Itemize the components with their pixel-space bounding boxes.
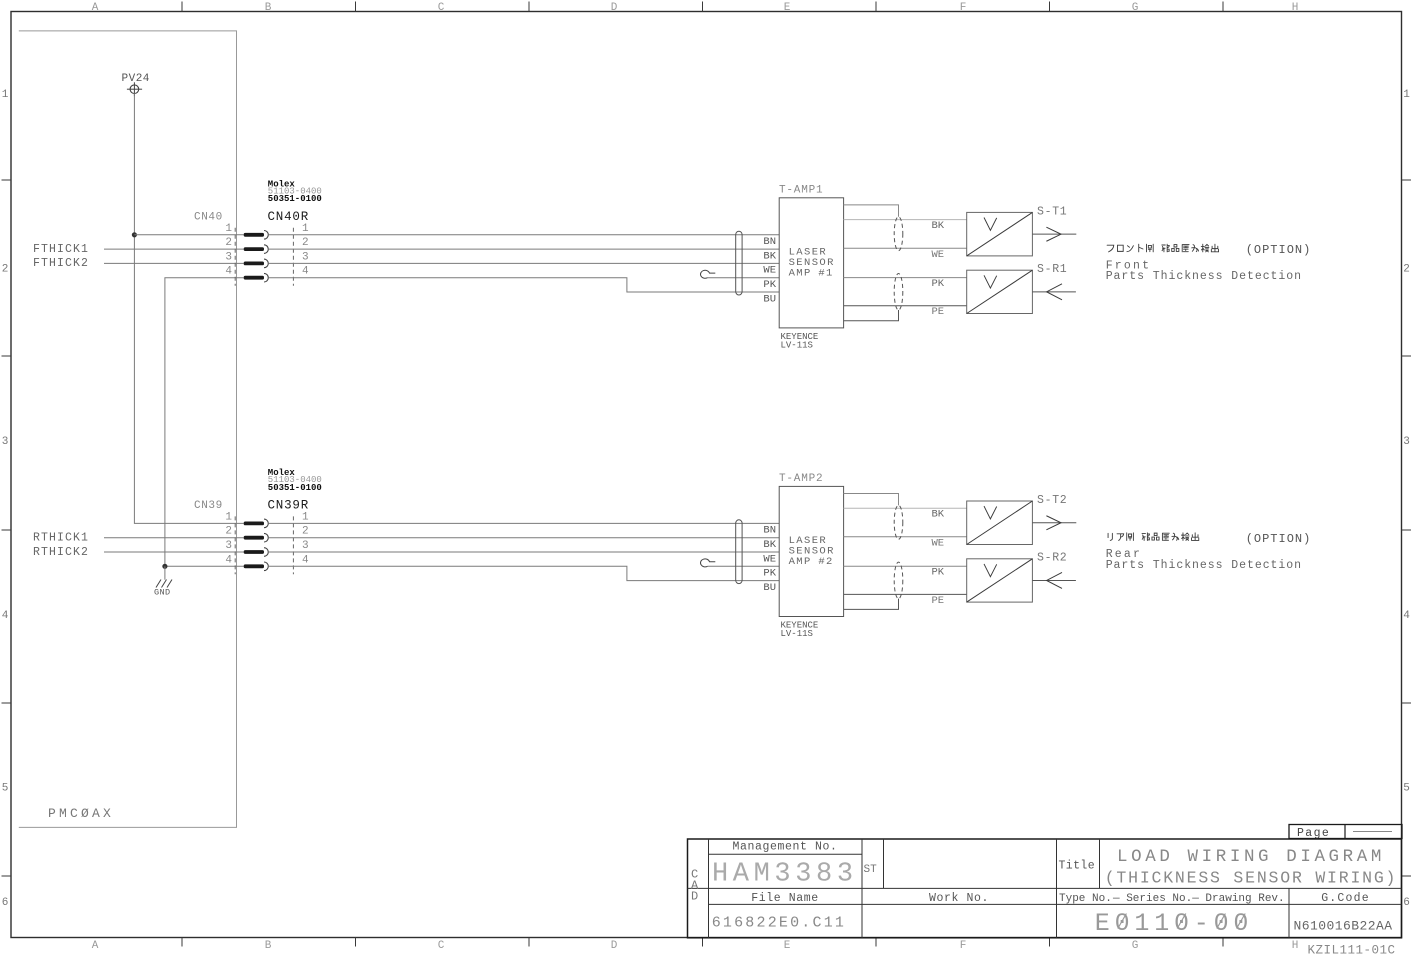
title block outline (688, 839, 1402, 938)
svg-text:BK: BK (932, 220, 945, 232)
svg-text:HAM3383: HAM3383 (712, 860, 858, 890)
svg-text:BU: BU (763, 582, 776, 594)
svg-text:S-T1: S-T1 (1037, 205, 1067, 218)
svg-text:S-T2: S-T2 (1037, 494, 1067, 507)
wire T-AMP1 WE to S-T1 (844, 247, 967, 249)
wire to ground (164, 566, 166, 579)
svg-text:N610016B22AA: N610016B22AA (1294, 919, 1393, 934)
svg-text:E0110-00: E0110-00 (1095, 909, 1253, 938)
wire CN39R-4 jog to T-AMP2 BU (268, 566, 779, 580)
svg-text:CN40: CN40 (194, 211, 223, 223)
svg-text:BN: BN (763, 525, 776, 537)
svg-text:2: 2 (302, 237, 309, 249)
wire curl to T-AMP1 PK (708, 277, 780, 279)
svg-text:1: 1 (2, 89, 9, 101)
svg-text:50351-0100: 50351-0100 (268, 483, 322, 493)
wire PV24 to CN40 pin1 (134, 234, 243, 236)
wire T-AMP2 PE to S-R2 (844, 593, 967, 595)
svg-text:WE: WE (932, 537, 945, 549)
svg-text:FTHICK2: FTHICK2 (33, 257, 89, 270)
svg-text:AMP #2: AMP #2 (789, 556, 834, 568)
svg-text:G.Code: G.Code (1321, 892, 1370, 905)
power node PV24 (130, 85, 139, 94)
svg-text:50351-0100: 50351-0100 (268, 194, 322, 204)
svg-text:T-AMP1: T-AMP1 (779, 184, 823, 196)
svg-text:— Series No.— Drawing Rev.: — Series No.— Drawing Rev. (1112, 893, 1285, 905)
svg-text:B: B (265, 940, 272, 952)
PMC0AX board box (19, 31, 237, 828)
svg-text:T-AMP2: T-AMP2 (779, 473, 823, 485)
svg-text:4: 4 (2, 610, 9, 622)
page number dash (1353, 831, 1392, 833)
sensor head S-T2 (967, 501, 1033, 545)
wire curl to T-AMP2 PK (708, 565, 780, 567)
title block page box (1289, 825, 1402, 839)
svg-text:6: 6 (1403, 897, 1410, 909)
wire T-AMP2 WE to S-T2 (844, 536, 967, 538)
svg-text:3: 3 (302, 251, 309, 263)
wire PV24 vertical to CN39 pin1 (134, 94, 243, 524)
wire T-AMP1 PK to S-R1 (844, 277, 967, 279)
svg-text:2: 2 (225, 237, 232, 249)
V mark S-R1 (984, 275, 997, 288)
title block inner lines (708, 839, 710, 938)
T-AMP1 shield drain wire top (844, 205, 899, 217)
svg-text:PK: PK (763, 279, 776, 291)
T-AMP2 shield drain wire bottom (844, 599, 899, 610)
wire CN40R-4 jog to T-AMP1 BU (268, 278, 779, 292)
wire CN39R-1 to T-AMP2 BN (268, 522, 779, 524)
receiver arrow S-R2 (1032, 579, 1076, 581)
svg-text:H: H (1292, 2, 1299, 14)
svg-text:1: 1 (302, 223, 309, 235)
laser sensor amp T-AMP2 (779, 486, 843, 616)
svg-text:Management No.: Management No. (732, 841, 837, 854)
twisted pair shield oval S-T2 (894, 505, 903, 539)
svg-text:PK: PK (932, 278, 945, 290)
svg-text:AMP #1: AMP #1 (789, 268, 834, 280)
svg-text:CN39: CN39 (194, 500, 223, 512)
svg-text:PE: PE (932, 595, 945, 607)
svg-text:LOAD WIRING DIAGRAM: LOAD WIRING DIAGRAM (1117, 847, 1385, 867)
CN39/CN39R pin 2 contact (244, 536, 264, 540)
svg-text:(THICKNESS SENSOR WIRING): (THICKNESS SENSOR WIRING) (1105, 869, 1398, 888)
svg-text:File Name: File Name (751, 892, 819, 905)
sensor head S-R1 (967, 270, 1033, 313)
emitter arrow S-T2 (1032, 522, 1076, 524)
svg-text:Parts Thickness Detection: Parts Thickness Detection (1106, 270, 1302, 283)
svg-text:C: C (438, 940, 445, 952)
svg-text:5: 5 (2, 783, 9, 795)
sensor head S-T1 (967, 212, 1033, 256)
svg-text:H: H (1292, 940, 1299, 952)
wire CN40R-2 to T-AMP1 BK (268, 248, 779, 250)
wire CN40R-1 to T-AMP1 BN (268, 234, 779, 236)
svg-text:3: 3 (302, 540, 309, 552)
svg-text:BK: BK (932, 508, 945, 520)
svg-text:2: 2 (1403, 264, 1410, 276)
V mark S-R2 (984, 564, 997, 577)
svg-text:Work No.: Work No. (929, 892, 989, 905)
svg-text:616822E0.C11: 616822E0.C11 (712, 915, 846, 932)
twisted pair shield oval S-R1 (894, 274, 903, 311)
svg-text:(OPTION): (OPTION) (1246, 532, 1312, 546)
svg-text:6: 6 (2, 897, 9, 909)
svg-text:1: 1 (302, 511, 309, 523)
wire CN40R-3 to T-AMP1 WE (268, 262, 779, 264)
receiver arrow S-R1 (1032, 291, 1076, 293)
svg-text:KZIL111-01C: KZIL111-01C (1308, 944, 1396, 958)
svg-text:D: D (691, 890, 698, 904)
cable bundle oval CN39R (736, 520, 742, 584)
svg-text:BN: BN (763, 236, 776, 248)
CN40/CN40R pin 3 contact (244, 262, 264, 266)
svg-text:PMCØAX: PMCØAX (48, 806, 114, 821)
svg-text:1: 1 (225, 511, 232, 523)
svg-text:G: G (1132, 940, 1139, 952)
svg-text:D: D (611, 940, 618, 952)
svg-text:S-R1: S-R1 (1037, 263, 1067, 276)
svg-text:BK: BK (763, 250, 776, 262)
T-AMP2 shield drain wire top (844, 494, 899, 506)
svg-text:4: 4 (1403, 610, 1410, 622)
svg-text:BK: BK (763, 539, 776, 551)
svg-text:BU: BU (763, 293, 776, 305)
svg-text:(OPTION): (OPTION) (1246, 243, 1312, 257)
wire T-AMP1 BK to S-T1 (844, 219, 967, 221)
svg-text:4: 4 (225, 554, 232, 566)
svg-text:2: 2 (225, 526, 232, 538)
wire RTHICK1 to CN39 pin2 (104, 537, 244, 539)
svg-text:4: 4 (302, 266, 309, 278)
V mark S-T2 (984, 506, 997, 519)
CN40/CN40R pin 1 contact (244, 233, 264, 237)
border tick marks right (1402, 179, 1412, 181)
CN40/CN40R pin 2 contact (244, 247, 264, 251)
svg-text:PK: PK (763, 568, 776, 580)
svg-text:2: 2 (2, 264, 9, 276)
wire T-AMP2 BK to S-T2 (844, 507, 967, 509)
CN39 housing dashed line (234, 516, 236, 574)
svg-text:CN40R: CN40R (268, 210, 310, 224)
sensor head S-R2 (967, 559, 1033, 602)
svg-text:F: F (960, 940, 967, 952)
svg-text:3: 3 (225, 251, 232, 263)
CN39/CN39R pin 4 contact (244, 564, 264, 568)
svg-text:3: 3 (225, 540, 232, 552)
svg-text:S-R2: S-R2 (1037, 552, 1067, 565)
svg-text:4: 4 (225, 266, 232, 278)
svg-text:F: F (960, 2, 967, 14)
cable bundle oval CN40R (736, 231, 742, 295)
svg-text:Page: Page (1297, 827, 1330, 840)
ground GND (156, 580, 172, 588)
twisted pair shield oval S-R2 (894, 562, 903, 599)
junction dot PV24/CN40 pin1 (132, 233, 136, 237)
svg-text:5: 5 (1403, 783, 1410, 795)
svg-text:WE: WE (932, 249, 945, 261)
svg-text:1: 1 (1403, 89, 1410, 101)
CN39R housing dashed line (292, 516, 294, 574)
laser sensor amp T-AMP1 (779, 198, 843, 328)
svg-text:A: A (92, 2, 99, 14)
CN40R housing dashed line (292, 228, 294, 286)
svg-text:E: E (784, 2, 791, 14)
wire T-AMP1 PE to S-R1 (844, 305, 967, 307)
svg-text:LV-11S: LV-11S (781, 629, 813, 639)
svg-text:3: 3 (1403, 436, 1410, 448)
svg-text:PV24: PV24 (122, 73, 150, 85)
annotation JP: rear-side parts thickness detection (1108, 533, 1199, 541)
wire FTHICK2 to CN40 pin3 (104, 262, 244, 264)
svg-text:ST: ST (864, 864, 878, 876)
svg-text:WE: WE (763, 265, 776, 277)
svg-text:G: G (1132, 2, 1139, 14)
T-AMP1 shield drain wire bottom (844, 310, 899, 321)
svg-text:3: 3 (2, 436, 9, 448)
wire CN39R-3 to T-AMP2 WE (268, 551, 779, 553)
wire RTHICK2 to CN39 pin3 (104, 551, 244, 553)
CN40 housing dashed line (234, 228, 236, 286)
wire CN39R-2 to T-AMP2 BK (268, 537, 779, 539)
border tick marks left (2, 179, 12, 181)
svg-text:D: D (611, 2, 618, 14)
svg-text:RTHICK2: RTHICK2 (33, 546, 89, 559)
svg-text:Title: Title (1059, 860, 1096, 873)
emitter arrow S-T1 (1032, 233, 1076, 235)
border tick marks bottom (181, 938, 183, 947)
junction dot GND/CN39 pin4 (163, 564, 167, 568)
svg-text:PE: PE (932, 306, 945, 318)
shield pigtail curl at T-AMP2 PK (701, 559, 716, 567)
svg-text:A: A (92, 940, 99, 952)
svg-text:E: E (784, 940, 791, 952)
CN39/CN39R pin 1 contact (244, 522, 264, 526)
svg-text:PK: PK (932, 566, 945, 578)
svg-text:RTHICK1: RTHICK1 (33, 532, 89, 545)
wire FTHICK1 to CN40 pin2 (104, 248, 244, 250)
twisted pair shield oval S-T1 (894, 217, 903, 251)
svg-text:Parts Thickness Detection: Parts Thickness Detection (1106, 559, 1302, 572)
svg-text:FTHICK1: FTHICK1 (33, 243, 89, 256)
border tick marks top (181, 2, 183, 12)
svg-text:1: 1 (225, 223, 232, 235)
CN40/CN40R pin 4 contact (244, 276, 264, 280)
svg-text:C: C (438, 2, 445, 14)
svg-text:GND: GND (154, 588, 171, 598)
shield pigtail curl at T-AMP1 PK (701, 270, 716, 278)
svg-text:Type No.: Type No. (1059, 893, 1112, 905)
svg-text:CN39R: CN39R (268, 498, 310, 512)
svg-text:LV-11S: LV-11S (781, 340, 813, 350)
svg-text:4: 4 (302, 554, 309, 566)
svg-text:2: 2 (302, 526, 309, 538)
CN39/CN39R pin 3 contact (244, 550, 264, 554)
annotation JP: front-side parts thickness detection (1107, 244, 1218, 252)
svg-text:B: B (265, 2, 272, 14)
V mark S-T1 (984, 218, 997, 231)
wire CN40 pin4 down to CN39 pin4 (165, 278, 244, 567)
svg-text:WE: WE (763, 553, 776, 565)
wire T-AMP2 PK to S-R2 (844, 565, 967, 567)
